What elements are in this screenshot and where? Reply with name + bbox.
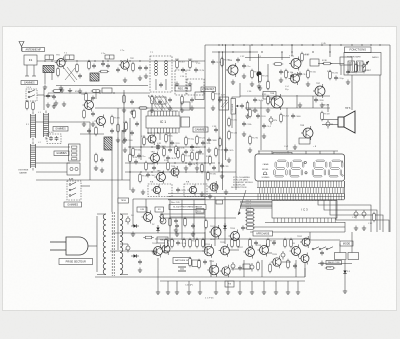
- svg-text:C330: C330: [318, 100, 324, 102]
- wire bus over display: [258, 150, 338, 152]
- svg-text:REG: REG: [160, 240, 165, 242]
- junction junction 152-147: [151, 146, 152, 147]
- wire S3 out wire: [81, 185, 90, 187]
- svg-text:SEG D: SEG D: [246, 210, 252, 212]
- coil box L2 divider: [69, 55, 71, 60]
- resistor R27: [301, 52, 310, 62]
- junction top bus dot 302: [301, 44, 302, 45]
- junction bus dot 108: [107, 60, 108, 61]
- wire vert W328: [327, 104, 329, 112]
- junction junction 175-163: [174, 162, 175, 163]
- wire wire into amp: [110, 250, 158, 252]
- junction top bus dot 341: [340, 44, 341, 45]
- capacitor C19b: [156, 144, 166, 149]
- ground G1: [43, 85, 47, 90]
- wire disp bus 1: [168, 193, 344, 195]
- wire amp link b: [228, 249, 239, 251]
- wire zener wire a: [344, 260, 346, 268]
- transistor TR3: [146, 133, 156, 145]
- svg-text:R 10k: R 10k: [142, 176, 149, 178]
- wire vol bottom wire: [231, 114, 233, 128]
- junction bus dot 156: [155, 60, 156, 61]
- junction bus dot 45: [44, 60, 45, 61]
- resistor R5: [132, 62, 135, 72]
- wire gnd drop 298: [297, 281, 299, 290]
- svg-text:SEG E: SEG E: [246, 213, 252, 215]
- resistor R28: [329, 70, 339, 80]
- wire top bus W52: [212, 51, 258, 53]
- capacitor C16: [170, 141, 180, 146]
- resistor R12c: [91, 90, 101, 93]
- capacitor C30: [256, 114, 266, 119]
- wire gnd drop 200: [199, 281, 201, 290]
- wire amp supply W239: [155, 238, 310, 240]
- ground G26: [231, 80, 235, 85]
- ground G2: [59, 86, 63, 91]
- ground G27b: [306, 82, 310, 87]
- resistor R24c: [207, 171, 217, 181]
- ground GA12: [286, 290, 290, 295]
- capacitor C8: [130, 100, 134, 105]
- wire left wire W180: [36, 179, 130, 181]
- resistor R58: [198, 259, 201, 269]
- junction junction 130-172: [129, 171, 130, 172]
- transistor TR18: [152, 245, 163, 258]
- ground G17b: [91, 122, 95, 127]
- ground GX2: [200, 192, 204, 197]
- ground G33b: [293, 145, 297, 150]
- wire F1 lead a: [26, 65, 28, 76]
- IF transformer can T2: [150, 56, 172, 92]
- resistor R19c: [139, 173, 149, 183]
- wire vert W112b: [111, 150, 113, 212]
- junction junction 219-163: [218, 162, 219, 163]
- svg-text:MODE: MODE: [343, 242, 351, 245]
- capacitor C7: [138, 66, 142, 71]
- capacitor C36b: [320, 251, 324, 256]
- svg-text:GAMME: GAMME: [19, 171, 27, 174]
- switch contact S1-1: [28, 90, 35, 93]
- resistor R21: [196, 151, 205, 161]
- capacitor C19c: [146, 173, 156, 178]
- capacitor CY2: [290, 74, 294, 79]
- IC U1b: [181, 117, 190, 127]
- junction bus52 dot 282: [281, 51, 282, 52]
- transistor TR8: [187, 184, 196, 195]
- resistor R5: [189, 59, 199, 69]
- wire amp drop 158: [157, 258, 159, 277]
- svg-text:BATTERIE 9V: BATTERIE 9V: [175, 259, 189, 262]
- ground GA5: [198, 290, 202, 295]
- resistor R19b: [175, 145, 186, 155]
- ground G2b: [60, 88, 64, 93]
- capacitor C7: [194, 68, 205, 73]
- transistor TR14: [301, 126, 313, 140]
- capacitor CY1: [236, 58, 240, 63]
- label box BATTERIE 9V: [173, 258, 191, 264]
- ground GA11: [274, 290, 278, 295]
- label box MODE: [340, 241, 353, 246]
- junction bus52 dot 292: [291, 51, 292, 52]
- svg-text:R 100k: R 100k: [254, 72, 262, 74]
- resistor RX2: [125, 121, 128, 131]
- svg-text:600 (P): 600 (P): [322, 105, 329, 107]
- box FLT3: [181, 102, 190, 110]
- junction bus52 dot 250: [249, 51, 250, 52]
- resistor RA5: [196, 238, 199, 248]
- switch bank SW-A: [348, 61, 355, 72]
- IC U1: [146, 116, 180, 128]
- capacitor CX10: [152, 166, 156, 171]
- wire speaker wire a: [322, 119, 338, 121]
- resistor R19: [145, 161, 156, 171]
- junction bus52 dot 262: [261, 51, 262, 52]
- capacitor C8: [144, 66, 148, 71]
- capacitor C14b: [100, 158, 104, 163]
- ground G24c: [220, 174, 224, 179]
- wire RF bus W93: [48, 92, 150, 94]
- switch contact S3-1: [69, 182, 76, 185]
- wire left wire W147: [36, 146, 70, 148]
- capacitor C40: [176, 241, 187, 246]
- transistor TR21: [207, 263, 219, 277]
- svg-text:SEG B: SEG B: [246, 204, 252, 206]
- capacitor C11: [49, 136, 53, 141]
- wire RF bus W85: [56, 85, 148, 87]
- resistor R41b: [325, 267, 335, 270]
- ground G20: [131, 188, 135, 193]
- resistor R31: [322, 62, 332, 65]
- resistor RS1: [26, 100, 29, 110]
- capacitor C24c: [220, 164, 229, 169]
- svg-text:AFFICHAGE: AFFICHAGE: [256, 232, 270, 235]
- wire F1 foot a: [25, 75, 29, 77]
- box BZ2: [196, 209, 204, 214]
- resistor R43: [161, 213, 164, 223]
- capacitor C25: [176, 188, 186, 193]
- divider unit DU1: [69, 144, 81, 161]
- wire vert W118: [117, 108, 119, 250]
- switch contact SW MODE-2: [319, 247, 326, 250]
- selector arrow: [363, 61, 369, 68]
- svg-text:C4k7: C4k7: [150, 175, 156, 177]
- diode D2: [156, 225, 159, 233]
- box R net: [310, 59, 319, 66]
- wire U1 top bus: [148, 110, 178, 112]
- resistor RX7: [209, 155, 212, 165]
- ground G10: [130, 110, 134, 115]
- svg-text:TR10: TR10: [121, 200, 127, 202]
- wire vert W268: [267, 64, 269, 90]
- transistor TR5: [155, 171, 166, 184]
- tuning coil L11: [30, 142, 35, 171]
- ground G32: [242, 132, 246, 137]
- label box REG. FM: [175, 86, 191, 91]
- ground G28: [320, 103, 324, 108]
- svg-text:F.B: F.B: [186, 182, 190, 184]
- coil box L2: [65, 55, 74, 60]
- transistor TR14b: [269, 94, 283, 110]
- box AMP2: [243, 264, 250, 269]
- wire drop 205b: [204, 232, 206, 250]
- switch contact S3-2: [69, 188, 76, 191]
- transistor TR12: [289, 72, 300, 85]
- capacitor C13e: [91, 96, 95, 101]
- wire drop W297: [296, 95, 298, 108]
- crystal X2 marks: [221, 100, 227, 107]
- wire vert W122: [121, 130, 123, 180]
- wire vert W287: [286, 108, 288, 150]
- wire stair 4: [336, 200, 389, 232]
- electrolytic capacitor C37: [126, 216, 130, 225]
- ground G2f: [62, 102, 66, 107]
- ground G_CT1: [257, 84, 261, 89]
- wire mode wire W263: [318, 263, 352, 265]
- svg-text:ANTENNE MF: ANTENNE MF: [25, 48, 41, 51]
- resistor RX8: [219, 137, 222, 147]
- capacitor C26b: [242, 64, 251, 69]
- shielded coil L5: [90, 73, 99, 81]
- box FLT2: [155, 97, 166, 104]
- ground G31: [346, 80, 350, 85]
- wire drop W292: [291, 45, 293, 56]
- svg-text:R 18k: R 18k: [210, 174, 217, 176]
- wire wire W218m: [160, 217, 236, 219]
- svg-text:C0,1: C0,1: [266, 126, 271, 128]
- FONCTIONS switch unit: [344, 53, 381, 76]
- junction junction 163-147: [162, 146, 163, 147]
- wire amp drop 211: [210, 260, 212, 277]
- capacitor C18: [201, 141, 211, 146]
- resistor RA4: [189, 238, 199, 248]
- junction top bus dot 330: [329, 44, 330, 45]
- ground G9b: [150, 108, 154, 113]
- ground G6b: [144, 74, 148, 79]
- resistor RA8: [237, 238, 240, 248]
- wire amp drop 262: [261, 260, 263, 277]
- resistor R26: [273, 63, 283, 66]
- junction bus dot 166: [165, 60, 166, 61]
- ground G6: [138, 76, 142, 81]
- ground G18c: [116, 138, 120, 143]
- driver box T4: [299, 138, 310, 144]
- resistor RX11: [167, 161, 170, 171]
- wire IC fan 3: [240, 203, 272, 205]
- svg-text:TR15: TR15: [197, 211, 202, 213]
- wire wire to FONCTIONS: [318, 63, 344, 65]
- ground G39: [174, 228, 178, 233]
- ground G35: [354, 226, 358, 231]
- ground G10b: [168, 106, 172, 111]
- svg-text:C47k: C47k: [228, 150, 234, 152]
- resistor RA7: [231, 238, 241, 248]
- svg-text:R 5,6k: R 5,6k: [262, 76, 269, 78]
- transistor TR4: [149, 152, 160, 165]
- svg-text:EXTERNE: EXTERNE: [19, 170, 29, 172]
- ground G2c: [68, 88, 72, 93]
- box BZ1: [216, 200, 223, 204]
- transistor TR26: [290, 245, 301, 258]
- ground G38b: [138, 268, 142, 273]
- resistor R6b: [151, 95, 154, 105]
- wire amp drop 296: [295, 260, 297, 277]
- ground GA2: [166, 290, 170, 295]
- wire wire W96L: [44, 95, 54, 97]
- wire stair 2: [324, 200, 377, 232]
- svg-text:GAMMES: GAMMES: [56, 152, 67, 155]
- wire disp bus 3: [168, 199, 344, 201]
- wire amp link a: [163, 250, 206, 252]
- resistor R44b: [169, 217, 172, 227]
- svg-text:C33k: C33k: [205, 143, 211, 145]
- wire S1 out: [37, 94, 44, 96]
- wire TR15 drop: [304, 263, 306, 277]
- wire IC fan 2: [240, 202, 272, 204]
- resistor RL2: [245, 212, 254, 215]
- transistor TR2: [119, 59, 129, 71]
- junction top bus dot 362: [361, 44, 362, 45]
- capacitor C27: [334, 76, 344, 81]
- wire drop W160c: [159, 133, 161, 140]
- wire vert W258: [257, 54, 259, 83]
- wire gnd drop 264: [263, 281, 265, 290]
- divider unit marks: [72, 146, 77, 160]
- resistor RY2: [363, 63, 366, 73]
- ground G7: [175, 82, 179, 87]
- wire mode rise: [309, 232, 311, 240]
- wire L4 lead b: [51, 73, 53, 81]
- ground G39c: [191, 232, 195, 237]
- resistor R57: [189, 257, 192, 267]
- speaker HP: [338, 111, 355, 133]
- IC U1 bottom pins: [148, 128, 179, 133]
- ground G9: [122, 108, 126, 113]
- junction top bus dot 252: [251, 44, 252, 45]
- wire main RF bus: [37, 60, 205, 62]
- wire gnd drop 252: [251, 281, 253, 290]
- junction junction 197-172: [196, 171, 197, 172]
- ground GA4: [187, 290, 191, 295]
- svg-text:HP 8: HP 8: [345, 107, 351, 110]
- capacitor C13d: [52, 95, 56, 100]
- label box REG box: [157, 237, 168, 243]
- junction bus52 dot 222.5: [222, 51, 223, 52]
- tuning coil L9: [43, 111, 48, 140]
- display digit DIG2: [289, 160, 304, 177]
- resistor RL1: [245, 209, 254, 212]
- transistor TR19: [202, 244, 214, 258]
- capacitor CX4: [168, 148, 172, 153]
- wire vert W141: [140, 110, 142, 160]
- resistor RA9: [249, 238, 252, 248]
- resistor RL4: [245, 220, 254, 223]
- wire drop disp a: [258, 151, 260, 154]
- svg-text:ARRET: ARRET: [364, 69, 372, 72]
- box AF1: [263, 92, 276, 100]
- wire T2 lead b: [165, 79, 167, 90]
- wire zener wire b: [344, 276, 346, 289]
- junction bus dot 130: [129, 60, 130, 61]
- resistor R44c: [184, 217, 187, 227]
- wire wire W214m: [160, 213, 205, 215]
- capacitor C13b: [110, 129, 114, 134]
- capacitor C47: [238, 266, 242, 271]
- resistor R27b: [307, 69, 317, 79]
- resistor RX12: [129, 153, 132, 163]
- diode D1: [343, 268, 346, 276]
- coil box L7: [102, 88, 112, 93]
- wire mode drop: [339, 244, 341, 253]
- wire F1 lead b: [33, 65, 35, 76]
- wire right vert W390: [389, 45, 391, 232]
- wire gnd drop 240: [239, 281, 241, 290]
- junction top bus dot 233: [232, 44, 233, 45]
- wire left wire W122: [36, 121, 90, 123]
- junction dotY2: [312, 51, 313, 52]
- junction top bus dot 244: [243, 44, 244, 45]
- wire crossing bundle: [64, 67, 77, 82]
- indicator bell: [263, 172, 267, 175]
- resistor R20: [182, 153, 192, 163]
- capacitor C14f: [122, 129, 126, 134]
- label box GAMMES 1: [21, 81, 38, 85]
- capacitor C26c: [240, 104, 244, 109]
- ground G37: [131, 232, 135, 237]
- diode DM1: [223, 223, 226, 231]
- wire mid bus W147: [128, 146, 205, 148]
- electrolytic capacitor C45: [281, 251, 285, 260]
- transistor TR1: [55, 57, 65, 69]
- label box RADIO COMM: [326, 261, 342, 265]
- junction top bus dot 219: [218, 44, 219, 45]
- IC U1 top pins: [148, 111, 179, 116]
- ground GX1: [208, 194, 212, 199]
- clock IC U3: [272, 201, 337, 219]
- wire left wire W128: [44, 127, 47, 129]
- switch bank ticks: [349, 62, 361, 71]
- switch contact S3-3: [69, 193, 76, 196]
- svg-text:R 22k: R 22k: [252, 111, 259, 113]
- junction top bus dot 292: [291, 44, 292, 45]
- resistor R4: [99, 70, 109, 73]
- wire wire W217p: [170, 216, 205, 218]
- capacitor C24b: [207, 138, 217, 143]
- electrolytic capacitor C44: [250, 263, 254, 272]
- svg-text:R 0,1: R 0,1: [215, 94, 221, 96]
- svg-text:C680: C680: [211, 140, 217, 142]
- ground G30: [258, 86, 262, 91]
- svg-text:FONCTIONS: FONCTIONS: [350, 48, 367, 52]
- svg-text:7 B: 7 B: [228, 284, 232, 286]
- junction dotL7: [113, 92, 114, 93]
- tuning coil L10: [30, 112, 35, 141]
- shielded coil L4: [43, 66, 54, 73]
- ground G25: [211, 106, 215, 111]
- ground G16: [94, 166, 98, 171]
- resistor RX9: [201, 163, 204, 173]
- resistor RY1: [285, 69, 288, 79]
- resistor R12: [52, 90, 62, 93]
- switch S3: [67, 181, 81, 200]
- svg-text:C10k: C10k: [185, 70, 191, 72]
- ground G25b: [207, 148, 211, 153]
- resistor RA1: [165, 238, 176, 248]
- wire bus above display: [245, 107, 330, 109]
- wire left wire W163: [36, 162, 70, 164]
- junction bus52 dot 233: [232, 51, 233, 52]
- wire long vert W225: [225, 45, 227, 160]
- wire drop W146p: [145, 199, 147, 212]
